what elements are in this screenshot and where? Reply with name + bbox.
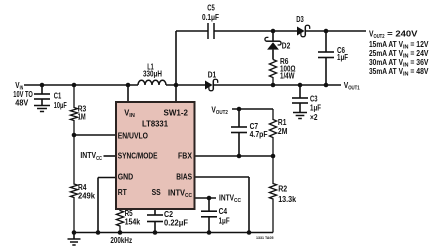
- svg-text:C4: C4: [219, 207, 228, 216]
- svg-text:13.3k: 13.3k: [278, 195, 297, 204]
- svg-text:GND: GND: [118, 173, 134, 182]
- svg-text:1μF: 1μF: [219, 216, 230, 225]
- svg-text:1/4W: 1/4W: [280, 72, 295, 81]
- svg-text:1μF: 1μF: [310, 103, 321, 112]
- svg-text:330μH: 330μH: [143, 70, 162, 79]
- svg-text:×2: ×2: [310, 113, 318, 122]
- svg-text:C1: C1: [54, 92, 62, 101]
- svg-text:EN/UVLO: EN/UVLO: [118, 132, 148, 141]
- svg-text:10μF: 10μF: [54, 101, 67, 110]
- svg-text:1M: 1M: [78, 113, 86, 122]
- svg-text:D1: D1: [208, 71, 217, 80]
- svg-text:154k: 154k: [125, 217, 141, 226]
- svg-text:0.22μF: 0.22μF: [164, 218, 188, 227]
- svg-text:1μF: 1μF: [337, 53, 348, 62]
- svg-text:LT8331: LT8331: [142, 119, 169, 128]
- svg-text:C3: C3: [310, 94, 318, 103]
- svg-text:1331 TA05: 1331 TA05: [256, 235, 274, 240]
- svg-text:200kHz: 200kHz: [110, 236, 132, 245]
- svg-text:SYNC/MODE: SYNC/MODE: [118, 151, 158, 160]
- svg-text:R2: R2: [278, 184, 288, 193]
- svg-text:0.1μF: 0.1μF: [202, 13, 219, 22]
- svg-text:R1: R1: [278, 118, 287, 127]
- svg-text:SS: SS: [152, 188, 161, 197]
- svg-text:D3: D3: [296, 15, 304, 24]
- svg-text:249k: 249k: [78, 191, 96, 200]
- svg-text:D2: D2: [282, 42, 291, 51]
- svg-text:4.7pF: 4.7pF: [250, 130, 268, 139]
- svg-text:2M: 2M: [278, 127, 288, 136]
- svg-text:48V: 48V: [15, 98, 29, 107]
- svg-text:FBX: FBX: [178, 151, 193, 160]
- svg-text:BIAS: BIAS: [176, 173, 192, 182]
- svg-text:RT: RT: [118, 188, 127, 197]
- svg-text:SW1-2: SW1-2: [164, 108, 189, 117]
- svg-text:C5: C5: [207, 4, 215, 13]
